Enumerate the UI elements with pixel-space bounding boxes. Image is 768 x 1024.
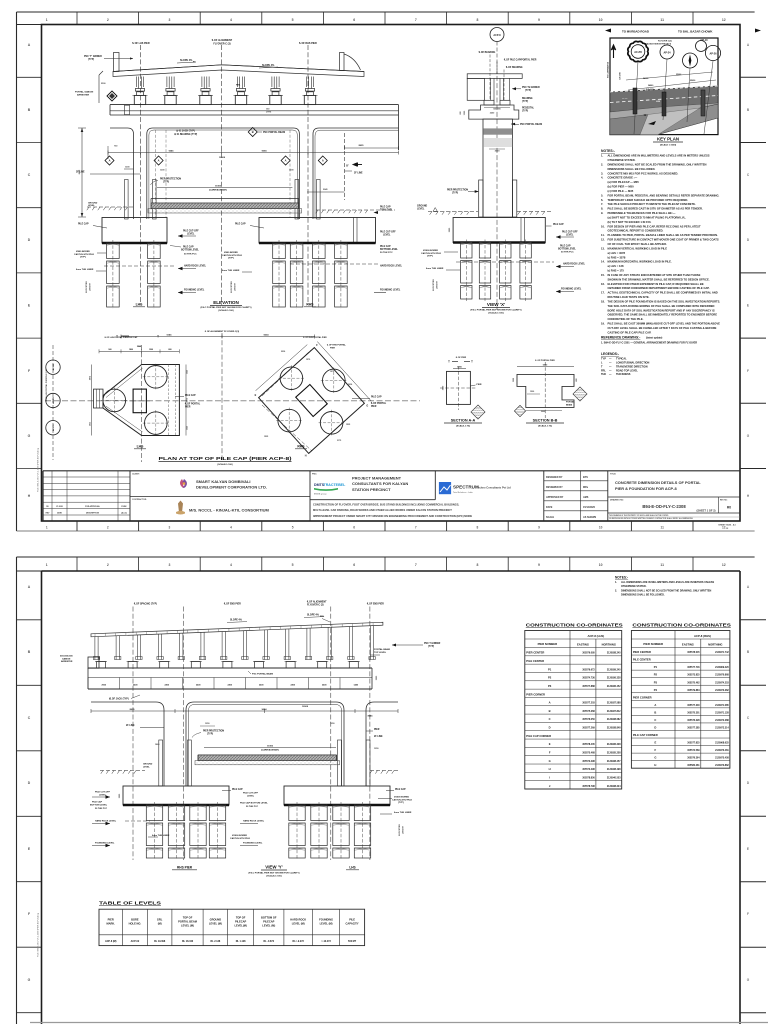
- svg-text:2120938.682: 2120938.682: [607, 719, 621, 721]
- svg-text:ACP-8 (LHS): ACP-8 (LHS): [588, 634, 605, 638]
- svg-text:P2: P2: [548, 676, 552, 680]
- svg-text:HARD ROCK LEVEL: HARD ROCK LEVEL: [563, 263, 586, 266]
- svg-text:HARD ROCK LEVEL: HARD ROCK LEVEL: [380, 265, 403, 268]
- svg-text:3: 3: [169, 526, 171, 530]
- svg-text:PILE CAP: PILE CAP: [395, 788, 406, 791]
- view X: ground level: [417, 206, 552, 215]
- view X: title: [470, 302, 521, 315]
- svg-text:PIER: PIER: [330, 347, 335, 349]
- svg-text:CAST-IN-SITU PILE: CAST-IN-SITU PILE: [222, 254, 242, 257]
- svg-text:2236: 2236: [281, 351, 285, 353]
- svg-text:H: H: [305, 454, 307, 457]
- svg-text:(b) TILT NOT TO EXCEED 1 IN 15: (b) TILT NOT TO EXCEED 1 IN 150.: [608, 220, 652, 224]
- svg-text:AMS: AMS: [583, 496, 589, 499]
- svg-text:ELEVATION: ELEVATION: [213, 300, 239, 305]
- svg-text:℄ OF PILE CAP/PORTAL PIER: ℄ OF PILE CAP/PORTAL PIER: [503, 59, 537, 62]
- sheet 1 right edge ticks and letters: [740, 43, 766, 498]
- plan: RHS pile cap rotated square: [255, 342, 372, 458]
- svg-text:12: 12: [722, 563, 726, 567]
- view Y: jack label: [109, 695, 140, 701]
- svg-text:(latest update): (latest update): [646, 337, 663, 340]
- svg-text:PILECAP: PILECAP: [263, 920, 275, 924]
- svg-text:CH:200: CH:200: [620, 71, 622, 79]
- svg-text:PROJECT MANAGEMENT: PROJECT MANAGEMENT: [352, 476, 402, 481]
- svg-text:3175: 3175: [187, 398, 189, 402]
- svg-text:9: 9: [538, 526, 540, 530]
- svg-text:SLOPE 4%: SLOPE 4%: [307, 614, 319, 617]
- svg-text:PIER PROTECTION: PIER PROTECTION: [203, 731, 224, 733]
- svg-text:MAXIMUM VERTICAL WORKING LOAD: MAXIMUM VERTICAL WORKING LOAD IN PILE: [608, 246, 668, 250]
- svg-text:LEVEL: LEVEL: [187, 233, 195, 235]
- svg-text:PIER CORNER: PIER CORNER: [633, 695, 652, 699]
- elevation: 2F LINE left labels: [76, 146, 345, 193]
- view X: left pile labels: [421, 250, 460, 291]
- svg-text:ENGIE group: ENGIE group: [314, 494, 327, 496]
- svg-text:PIER & FOUNDATION FOR ACP-8: PIER & FOUNDATION FOR ACP-8: [615, 486, 677, 491]
- svg-text:DATE: DATE: [546, 506, 553, 509]
- svg-text:(SCALE-1:75): (SCALE-1:75): [538, 425, 552, 428]
- svg-text:PIER CORNER: PIER CORNER: [526, 692, 545, 696]
- svg-text:(CARRIAGEWAY): (CARRIAGEWAY): [261, 749, 279, 752]
- svg-text:SLOPE 4%: SLOPE 4%: [262, 64, 275, 67]
- svg-text:9094: 9094: [262, 149, 268, 152]
- svg-text:LHS: LHS: [136, 303, 144, 307]
- svg-text:P1: P1: [548, 667, 552, 671]
- svg-text:A: A: [654, 703, 656, 707]
- svg-text:GEOTECHNICAL REPORT IS CONSIDE: GEOTECHNICAL REPORT IS CONSIDERED.: [608, 229, 664, 233]
- svg-text:THE SOIL DATA DURING BORING OF: THE SOIL DATA DURING BORING OF PILE SHAL…: [608, 304, 715, 308]
- svg-text:℄ OF PORTAL PIER: ℄ OF PORTAL PIER: [534, 359, 555, 362]
- svg-text:1.: 1.: [615, 581, 617, 584]
- svg-text:PILE CENTER: PILE CENTER: [526, 659, 544, 663]
- svg-text:LEVEL: LEVEL: [566, 234, 574, 236]
- svg-text:PILE CAP: PILE CAP: [183, 246, 194, 249]
- svg-text:4.: 4.: [601, 176, 603, 180]
- svg-text:PILE CAP: PILE CAP: [560, 245, 571, 248]
- svg-text:(TYP): (TYP): [266, 111, 272, 113]
- svg-text:REFERENCE DRAWING:-: REFERENCE DRAWING:-: [601, 336, 640, 340]
- svg-text:RL 18.446: RL 18.446: [182, 940, 194, 943]
- svg-text:(Asstt): (Asstt): [121, 512, 127, 515]
- svg-text:CONTRACTOR:: CONTRACTOR:: [132, 498, 147, 501]
- svg-text:SOCKETING: SOCKETING: [399, 824, 401, 836]
- svg-text:2F LINE: 2F LINE: [126, 725, 135, 727]
- svg-text:MARK.: MARK.: [106, 921, 115, 925]
- svg-text:CAST-IN-SITU PILE: CAST-IN-SITU PILE: [392, 798, 412, 801]
- svg-text:IMPROVEMENT PROJECT UNDER SMAR: IMPROVEMENT PROJECT UNDER SMART CITY MIS…: [313, 514, 472, 518]
- svg-text:LEVEL (M): LEVEL (M): [262, 923, 275, 927]
- svg-text:BOTTOM LEVEL: BOTTOM LEVEL: [90, 804, 108, 806]
- sheet 2 top number strip: [17, 557, 726, 571]
- svg-text:2120937.842: 2120937.842: [607, 710, 621, 713]
- svg-text:MPa: MPa: [583, 486, 589, 489]
- svg-text:B: B: [252, 130, 254, 134]
- svg-text:PORTAL: PORTAL: [566, 401, 575, 404]
- svg-text:2120938.245: 2120938.245: [607, 652, 621, 655]
- svg-text:305577.888: 305577.888: [582, 686, 595, 688]
- view X: bearings: [484, 97, 533, 105]
- svg-text:(TYP): (TYP): [427, 256, 433, 258]
- svg-text:Techno Consultants Pvt Ltd: Techno Consultants Pvt Ltd: [477, 486, 512, 490]
- elevation: RHS piles: [273, 240, 348, 309]
- svg-text:2120975.458: 2120975.458: [715, 757, 729, 760]
- sheet 2 left letter strip: [17, 585, 42, 1013]
- svg-text:FOUNDING LEVEL: FOUNDING LEVEL: [561, 289, 582, 291]
- svg-text:A: A: [322, 159, 324, 163]
- svg-text:PILECAP: PILECAP: [235, 920, 247, 924]
- svg-text:FOR SUBSTRUCTURE IN CONTACT WI: FOR SUBSTRUCTURE IN CONTACT WITH/OVER ON…: [608, 238, 719, 242]
- svg-text:16.: 16.: [601, 282, 605, 286]
- svg-text:FOUNDING LEVEL: FOUNDING LEVEL: [95, 843, 115, 845]
- svg-text:2120940.553: 2120940.553: [607, 777, 621, 780]
- elevation: portal beam band: [110, 105, 399, 150]
- svg-text:FILE: B94-E-OD-FLY-C-2308 (PIE: FILE: B94-E-OD-FLY-C-2308 (PIER ACP-8).d…: [37, 912, 40, 957]
- svg-text:TOP OF: TOP OF: [183, 916, 193, 920]
- svg-text:℄ OF RHS PIER: ℄ OF RHS PIER: [298, 42, 317, 45]
- svg-text:25636: 25636: [690, 80, 695, 82]
- elevation: left bored pile labels: [74, 251, 252, 293]
- svg-text:PILE SHALL BE CAST 300MM (MIN): PILE SHALL BE CAST 300MM (MIN) ABOVE CUT…: [608, 322, 721, 326]
- svg-text:8: 8: [476, 563, 478, 567]
- svg-text:(TYP): (TYP): [452, 192, 458, 194]
- svg-text:T: T: [448, 360, 450, 364]
- svg-text:PILE CENTER: PILE CENTER: [633, 658, 651, 662]
- svg-text:3000: 3000: [495, 151, 501, 153]
- svg-text:R0: R0: [46, 506, 48, 508]
- svg-text:D: D: [549, 726, 551, 730]
- svg-text:TITLE:: TITLE:: [610, 473, 617, 475]
- spectrum consultant box: [439, 482, 511, 494]
- elevation: PSC Tk girder label: [84, 56, 133, 61]
- svg-text:PILE CAP CORNER: PILE CAP CORNER: [633, 733, 658, 737]
- svg-text:18.: 18.: [601, 299, 605, 303]
- svg-text:305573.825: 305573.825: [687, 675, 700, 677]
- svg-text:CASTING OF PILE CAP/ PILE CAP.: CASTING OF PILE CAP/ PILE CAP.: [608, 330, 652, 334]
- svg-text:BORE: BORE: [131, 918, 139, 922]
- svg-text:17.: 17.: [601, 291, 605, 295]
- svg-text:2120971.742: 2120971.742: [715, 651, 729, 654]
- svg-text:PIER: PIER: [108, 918, 114, 922]
- svg-text:1: 1: [46, 563, 48, 567]
- svg-text:24860: 24860: [648, 84, 653, 87]
- svg-text:a) LHS = 128: a) LHS = 128: [608, 264, 624, 268]
- svg-text:10.: 10.: [601, 224, 605, 228]
- svg-text:305576.672: 305576.672: [582, 669, 595, 671]
- svg-text:2120938.324: 2120938.324: [607, 785, 621, 788]
- svg-text:1011: 1011: [89, 422, 91, 426]
- svg-text:1525: 1525: [264, 436, 268, 438]
- elevation: A diamonds row: [105, 156, 327, 165]
- svg-text:SPECTRUM: SPECTRUM: [453, 485, 479, 490]
- svg-text:12.: 12.: [601, 238, 605, 242]
- svg-text:℄ OF BEARING: ℄ OF BEARING: [478, 51, 496, 54]
- svg-text:℄ OF END PIER: ℄ OF END PIER: [366, 603, 384, 606]
- elevation: B diamond PSC portal beam: [248, 128, 285, 137]
- svg-text:(TYP): (TYP): [522, 101, 528, 103]
- svg-text:PIER: PIER: [185, 406, 191, 408]
- svg-text:F: F: [747, 369, 749, 373]
- svg-text:BOTTOM OF: BOTTOM OF: [261, 916, 277, 920]
- svg-text:CAST-IN-SITU PILE: CAST-IN-SITU PILE: [230, 837, 250, 840]
- svg-text:7: 7: [415, 18, 417, 22]
- svg-text:P1: P1: [654, 665, 658, 669]
- svg-text:FOUNDING: FOUNDING: [319, 918, 333, 922]
- svg-text:ARRESTER: ARRESTER: [61, 660, 73, 663]
- view Y: piles: [146, 802, 370, 860]
- svg-text:PILE CAP CORNER: PILE CAP CORNER: [526, 734, 551, 738]
- svg-text:PILE CUT-OFF: PILE CUT-OFF: [380, 232, 396, 234]
- sheet 2 inner border: [42, 571, 741, 1024]
- elevation: right side level labels: [290, 206, 403, 293]
- plan: LHS dimensions: [89, 345, 188, 436]
- svg-text:BEARING: BEARING: [522, 97, 533, 100]
- svg-text:OTHERWISE STATED.: OTHERWISE STATED.: [608, 158, 636, 162]
- svg-text:T: T: [157, 335, 159, 339]
- svg-text:TRACTEBEL: TRACTEBEL: [324, 483, 347, 487]
- svg-text:(TYP): (TYP): [80, 257, 86, 259]
- svg-text:6mm THK LINER: 6mm THK LINER: [426, 268, 444, 270]
- svg-text:2120939.245: 2120939.245: [607, 668, 621, 671]
- svg-text:(KD-002): (KD-002): [646, 89, 654, 91]
- svg-text:R0: R0: [727, 506, 731, 510]
- svg-text:AC-P8: AC-P8: [634, 51, 642, 54]
- svg-text:RL=-9.272: RL=-9.272: [293, 940, 305, 943]
- svg-text:2: 2: [107, 18, 109, 22]
- svg-text:2000: 2000: [541, 411, 545, 413]
- svg-text:MULTI-LEVEL CAR PARKING, ROAD: MULTI-LEVEL CAR PARKING, ROAD WORKS AND …: [313, 508, 452, 512]
- svg-text:PEDESTAL: PEDESTAL: [522, 107, 535, 110]
- svg-text:305576.364: 305576.364: [687, 757, 700, 760]
- sheet 2 notes: [615, 576, 714, 597]
- plan: top dimension line: [104, 330, 328, 460]
- svg-text:2120972.388: 2120972.388: [715, 720, 729, 722]
- elevation: centre-line labels on top: [131, 39, 317, 87]
- svg-text:GABION: GABION: [62, 657, 71, 660]
- svg-text:1525: 1525: [187, 426, 189, 430]
- PMC tractebel box: [310, 474, 435, 500]
- view Y: bearing pedestal row: [95, 662, 360, 669]
- svg-text:8.: 8.: [601, 207, 603, 211]
- svg-text:2.: 2.: [601, 162, 603, 166]
- svg-text:3: 3: [168, 18, 170, 22]
- svg-text:℄ OF ALIGNMENT FLYOVER-C(3): ℄ OF ALIGNMENT FLYOVER-C(3): [204, 330, 240, 333]
- svg-text:SHEET SIZE - A1: SHEET SIZE - A1: [718, 524, 736, 527]
- svg-text:KEY PLAN: KEY PLAN: [657, 137, 679, 142]
- svg-text:SOCKETING: SOCKETING: [433, 279, 435, 291]
- svg-text:① 01 JACK (TYP): ① 01 JACK (TYP): [176, 130, 195, 133]
- svg-text:TOP LEVEL: TOP LEVEL: [374, 652, 387, 654]
- elevation: deck cross girders superstructure: [113, 53, 364, 77]
- svg-text:℄ OF LHS PIER: ℄ OF LHS PIER: [131, 42, 149, 45]
- view Y: portal legs doorway: [91, 702, 398, 786]
- svg-text:2: 2: [107, 563, 109, 567]
- svg-text:8935: 8935: [359, 145, 365, 147]
- svg-text:THE DESIGN OF PILE FOUNDATION: THE DESIGN OF PILE FOUNDATION IS BASED O…: [608, 299, 721, 303]
- svg-text:P2: P2: [654, 673, 658, 677]
- construction co-ordinates table LHS: [525, 623, 623, 790]
- svg-text:2120969.220: 2120969.220: [715, 667, 729, 669]
- svg-text:(b) FOR PIER — M50: (b) FOR PIER — M50: [608, 185, 635, 189]
- svg-text:SECTION A-A: SECTION A-A: [451, 419, 476, 423]
- svg-text:50 THK PCC: 50 THK PCC: [561, 252, 574, 254]
- view Y: level labels right: [148, 797, 412, 838]
- svg-text:E: E: [549, 742, 551, 746]
- svg-text:M/S. NCCCL - KINJAL-KTIL CONSO: M/S. NCCCL - KINJAL-KTIL CONSORTIUM: [189, 508, 270, 513]
- svg-text:(SCALE-1:100): (SCALE-1:100): [218, 309, 233, 312]
- plan: LHS pile cap outline: [94, 345, 180, 462]
- svg-text:THE PILE SHOULD PROJECT 75 MM: THE PILE SHOULD PROJECT 75 MM INTO THE P…: [608, 202, 696, 206]
- svg-text:P3: P3: [654, 680, 658, 684]
- svg-text:THICKNESS: THICKNESS: [616, 373, 631, 376]
- svg-text:GRL: GRL: [157, 918, 163, 922]
- svg-text:9054: 9054: [262, 708, 268, 711]
- svg-text:305577.330: 305577.330: [687, 705, 700, 707]
- svg-text:2.: 2.: [615, 589, 617, 592]
- svg-text:TO LOKMANYA: TO LOKMANYA: [607, 62, 610, 78]
- svg-text:9.: 9.: [601, 211, 603, 215]
- svg-text:ACP-8 (M): ACP-8 (M): [105, 940, 117, 943]
- svg-text:TO BHL. BAZAR CHOWK: TO BHL. BAZAR CHOWK: [678, 29, 713, 33]
- revision table: [43, 471, 130, 521]
- svg-text:TOP LEVEL: TOP LEVEL: [380, 209, 393, 211]
- svg-text:LEVEL: LEVEL: [143, 766, 150, 768]
- svg-text:GROUND: GROUND: [210, 918, 222, 922]
- svg-text:EASTING: EASTING: [682, 642, 694, 646]
- svg-text:900: 900: [108, 349, 111, 351]
- view X: right level labels: [456, 223, 586, 294]
- svg-text:RHS: RHS: [306, 303, 314, 307]
- svg-text:10: 10: [599, 563, 603, 567]
- svg-text:SMART KALYAN DOMBIVALI: SMART KALYAN DOMBIVALI: [196, 479, 251, 484]
- svg-text:10: 10: [599, 526, 603, 530]
- svg-text:F: F: [747, 912, 749, 916]
- svg-text:2120972.314: 2120972.314: [715, 727, 729, 730]
- svg-text:RL -0.872: RL -0.872: [263, 940, 274, 943]
- svg-text:3175: 3175: [337, 440, 341, 442]
- view Y: pile caps: [119, 786, 406, 805]
- svg-text:305577.825: 305577.825: [687, 743, 700, 745]
- svg-text:3: 3: [168, 563, 170, 567]
- svg-text:(P4-C PORTAL PIER NOT SHOWN FO: (P4-C PORTAL PIER NOT SHOWN FOR CLARITY): [470, 309, 521, 312]
- svg-text:AP-26: AP-26: [709, 52, 717, 55]
- svg-text:PLAN AT TOP OF PILE CAP (PIER: PLAN AT TOP OF PILE CAP (PIER ACP-8): [159, 456, 293, 462]
- svg-text:LEGENDS:-: LEGENDS:-: [601, 352, 619, 356]
- key plan: title: [653, 137, 683, 147]
- svg-text:(TYP): (TYP): [207, 733, 213, 735]
- page bottom crop line: [30, 1022, 768, 1024]
- svg-text:PILE CAP: PILE CAP: [235, 223, 246, 226]
- plan: LHS pile circles: [101, 364, 169, 436]
- svg-text:HOLE NO.: HOLE NO.: [129, 921, 142, 925]
- sheet 1 top number strip: [17, 12, 726, 25]
- plan: LHS pier column rect: [129, 389, 150, 413]
- svg-text:E: E: [747, 304, 749, 308]
- svg-text:(c) FOR PILE — M35: (c) FOR PILE — M35: [608, 189, 634, 193]
- svg-text:8: 8: [476, 18, 478, 22]
- svg-text:BOTTOM LEVEL: BOTTOM LEVEL: [558, 248, 577, 250]
- sheet 1 inner border: [42, 25, 741, 522]
- elevation: jack and bearing labels: [174, 130, 197, 137]
- svg-text:HARD ROCK LEVEL: HARD ROCK LEVEL: [243, 820, 265, 823]
- elevation: six PSC girders with bearings: [133, 77, 318, 105]
- svg-text:305577.203: 305577.203: [582, 703, 595, 705]
- svg-text:14.: 14.: [601, 260, 605, 264]
- svg-text:50 THK PCC: 50 THK PCC: [184, 253, 197, 255]
- svg-text:(P4-C PORTAL PIER NOT SHOWN FO: (P4-C PORTAL PIER NOT SHOWN FOR CLARITY): [200, 306, 251, 309]
- elevation: LHS pile cap: [78, 218, 167, 244]
- svg-text:2120938.498: 2120938.498: [607, 768, 621, 771]
- svg-text:PILE CAP: PILE CAP: [78, 223, 89, 226]
- svg-text:PSC "I" GIRDER: PSC "I" GIRDER: [84, 56, 102, 58]
- svg-text:2120970.481: 2120970.481: [715, 749, 729, 752]
- svg-text:F: F: [28, 912, 30, 916]
- svg-text:CLIENT:: CLIENT:: [132, 474, 140, 476]
- svg-text:4: 4: [230, 18, 232, 22]
- svg-text:BORE HOLE DATA OF SOIL INVESTI: BORE HOLE DATA OF SOIL INVESTIGATION REP…: [608, 308, 715, 312]
- svg-text:FOUNDING LEVEL: FOUNDING LEVEL: [184, 290, 205, 292]
- view X: pier cap stepped block: [460, 105, 542, 126]
- svg-text:— —: — —: [622, 97, 628, 100]
- view Y: 2F line labels: [126, 723, 383, 750]
- svg-text:CONSTRUCTION CO-ORDINATES: CONSTRUCTION CO-ORDINATES: [632, 623, 731, 628]
- svg-text:6.: 6.: [601, 198, 603, 202]
- svg-text:TRANSVERSE DIRECTION: TRANSVERSE DIRECTION: [616, 365, 648, 368]
- svg-text:b) RHS = 3578: b) RHS = 3578: [608, 255, 626, 259]
- svg-text:305578.856: 305578.856: [582, 778, 595, 780]
- svg-text:NORTHING: NORTHING: [602, 642, 616, 646]
- svg-text:6: 6: [353, 18, 355, 22]
- svg-text:EPS: EPS: [583, 476, 588, 479]
- svg-text:2120973.382: 2120973.382: [715, 690, 729, 692]
- svg-text:PILE CUT-OFF: PILE CUT-OFF: [183, 231, 199, 233]
- svg-text:℄ OF RHS PORTAL PIER: ℄ OF RHS PORTAL PIER: [302, 336, 327, 339]
- svg-text:OTHERWISE STATED.: OTHERWISE STATED.: [621, 585, 647, 588]
- view Y: gabion arrester block: [60, 656, 99, 669]
- svg-text:24138: 24138: [643, 77, 648, 80]
- svg-text:(KALYAN STATION PRECINCT): (KALYAN STATION PRECINCT): [645, 43, 672, 46]
- svg-text:(a) FOR PILECAP — M35: (a) FOR PILECAP — M35: [608, 180, 640, 184]
- section B-B: [513, 359, 587, 428]
- svg-text:PILE CAP: PILE CAP: [185, 394, 196, 397]
- view Y: level labels left: [90, 792, 150, 848]
- svg-text:1525: 1525: [187, 370, 189, 374]
- view Y: portal beam band with segment dims: [88, 648, 390, 689]
- svg-text:APPROVED BY: APPROVED BY: [546, 496, 564, 499]
- svg-text:FOR PORTAL BEAM, PEDESTAL AND: FOR PORTAL BEAM, PEDESTAL AND BEARING DE…: [608, 193, 720, 197]
- project description: [313, 503, 472, 518]
- svg-text:CONSTRUCTION OF FLYOVER, FOOT: CONSTRUCTION OF FLYOVER, FOOT OVER BRIDG…: [313, 503, 459, 507]
- svg-text:DRAWING NO:: DRAWING NO:: [610, 499, 624, 502]
- svg-text:EASTING: EASTING: [577, 642, 589, 646]
- sheet 2 outer border: [17, 557, 755, 1024]
- svg-text:NOTES:-: NOTES:-: [601, 149, 615, 153]
- sheet 1 left letter strip: [17, 43, 42, 498]
- svg-text:LONGITUDINAL DIRECTION: LONGITUDINAL DIRECTION: [616, 362, 649, 365]
- svg-text:T: T: [116, 335, 118, 339]
- svg-text:800: 800: [168, 349, 171, 351]
- svg-text:P3: P3: [548, 684, 552, 688]
- designed/reviewed/approved rows: [544, 471, 608, 521]
- svg-text:PILE CUT-OFF: PILE CUT-OFF: [95, 792, 111, 794]
- svg-text:PILE CAP: PILE CAP: [553, 223, 564, 226]
- svg-text:PIER CENTER: PIER CENTER: [526, 651, 544, 655]
- svg-text:℄ OF ALIGNMENT: ℄ OF ALIGNMENT: [306, 601, 327, 604]
- svg-text:PLANNING TO PIER, PORTAL BEAM: PLANNING TO PIER, PORTAL BEAM & LINER SH…: [608, 233, 719, 237]
- svg-text:PILE SHALL BE BORED CAST IN SI: PILE SHALL BE BORED CAST IN SITU OF DIAM…: [608, 207, 703, 211]
- svg-text:305572.569: 305572.569: [687, 750, 700, 752]
- svg-text:TO MURBAD ROAD: TO MURBAD ROAD: [622, 29, 649, 33]
- svg-text:RHS: RHS: [297, 445, 305, 449]
